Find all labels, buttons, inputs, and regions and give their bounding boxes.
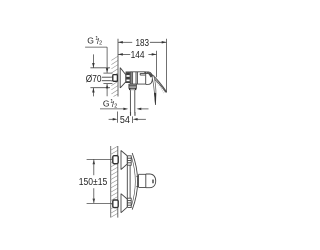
svg-text:G: G <box>87 36 94 46</box>
svg-text:Ø70: Ø70 <box>86 74 102 85</box>
svg-text:150±15: 150±15 <box>79 177 108 188</box>
svg-text:183: 183 <box>136 38 150 49</box>
svg-text:144: 144 <box>131 50 145 61</box>
svg-text:G: G <box>103 99 110 109</box>
svg-text:2: 2 <box>114 104 117 110</box>
svg-text:2: 2 <box>99 41 102 47</box>
svg-text:54: 54 <box>120 115 130 126</box>
